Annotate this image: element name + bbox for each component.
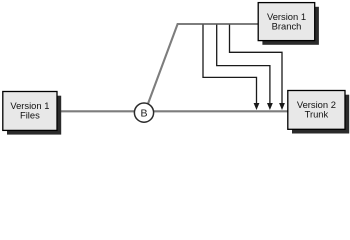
box: Version 1 Files shadow <box>7 96 61 135</box>
svg-text:B: B <box>140 107 147 119</box>
svg-text:Files: Files <box>20 110 40 121</box>
wire: branch line with diagonal from node B up to Version 1 Branch <box>145 24 258 111</box>
svg-text:Branch: Branch <box>272 20 302 31</box>
wire: merge arrow 1 (leftmost elbow) <box>203 25 257 104</box>
svg-text:Trunk: Trunk <box>305 109 329 120</box>
box: Version 2 Trunk <box>288 91 345 130</box>
wire: merge arrow 3 (rightmost elbow) <box>230 25 283 104</box>
box: Version 1 Files <box>3 92 57 131</box>
node B: branch point circle <box>134 103 153 122</box>
wire: merge arrow 2 (middle elbow) <box>217 25 270 104</box>
wire: trunk line (Version 1 Files to Version 2 Trunk) <box>58 110 288 112</box>
box: Version 1 Branch shadow <box>262 7 319 45</box>
box: Version 2 Trunk shadow <box>292 95 349 134</box>
box: Version 1 Branch <box>258 3 315 41</box>
